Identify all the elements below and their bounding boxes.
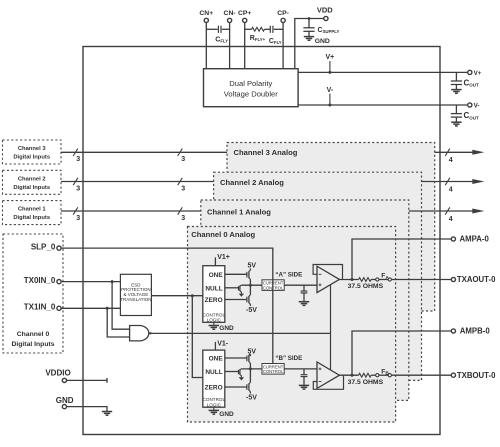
wire V+ rail: [298, 71, 467, 73]
wire CFLY2 to CP-: [274, 28, 283, 30]
node V- marker: [329, 94, 331, 105]
ground COUT (V+): [451, 90, 461, 94]
svg-text:V+: V+: [474, 70, 482, 77]
svg-text:TXAOUT-0: TXAOUT-0: [457, 275, 496, 284]
svg-text:VDDIO: VDDIO: [45, 369, 70, 378]
channel 3 digital inputs box: [3, 140, 62, 164]
terminal CN+: [204, 18, 208, 22]
wire CN+ to CFLY: [206, 28, 217, 30]
svg-text:CONTROL: CONTROL: [263, 369, 284, 374]
svg-text:-5V: -5V: [246, 395, 257, 402]
channel 0 digital inputs box: [3, 234, 63, 353]
op block A current control: [262, 280, 284, 291]
op block B current control: [262, 364, 284, 375]
terminal GND: [62, 405, 66, 409]
bus slash 3a ch1: [73, 207, 78, 214]
wire A res to FA: [371, 279, 376, 281]
wire FA link: [379, 279, 388, 281]
svg-text:SLP_0: SLP_0: [31, 243, 56, 252]
transistor QB1 (5V): [247, 354, 251, 363]
wire ESD branch to B logic: [192, 296, 203, 378]
wire B rail upper: [249, 363, 251, 369]
op block B control logic: [203, 350, 225, 407]
A noninverting input mark: [319, 284, 322, 286]
chip outline: [83, 47, 440, 435]
transistor QB3 (-5V): [247, 382, 251, 391]
wire A ONE: [225, 273, 247, 275]
wire AND out to enable: [150, 332, 330, 334]
junction A out: [351, 278, 354, 281]
svg-text:ONE: ONE: [209, 272, 224, 279]
wire TX0IN_0 to ESD: [61, 281, 120, 283]
wire COUT2 stub: [455, 105, 457, 114]
wire B NULL: [225, 371, 239, 373]
svg-text:37.5 OHMS: 37.5 OHMS: [348, 283, 384, 290]
channel 0 analog block: [188, 227, 396, 423]
wire CN- to doubler: [229, 23, 231, 69]
bus slash 3b ch3: [178, 149, 183, 156]
resistor A 37.5 ohms: [359, 278, 372, 282]
svg-text:TRANSLATION: TRANSLATION: [120, 297, 151, 302]
svg-text:ZERO: ZERO: [205, 297, 223, 304]
wire enable A-B amps: [330, 285, 332, 370]
svg-text:NULL: NULL: [205, 285, 222, 292]
wire channel 2 analog out bus: [422, 181, 473, 183]
wire B -5V stub: [249, 392, 251, 394]
svg-text:GND: GND: [219, 325, 234, 332]
svg-text:3: 3: [76, 215, 80, 222]
terminal TX1IN_0: [57, 306, 61, 310]
terminal V+: [468, 70, 472, 74]
svg-text:CP-: CP-: [277, 10, 289, 17]
terminal VDD: [324, 16, 328, 20]
junction B out: [351, 374, 354, 377]
wire FA to TXAOUT: [391, 279, 451, 281]
wire TX1IN branch to AND: [107, 308, 129, 337]
svg-text:3: 3: [76, 156, 80, 163]
terminal SLP_0: [57, 246, 61, 250]
bus slash 4 ch1: [445, 207, 450, 214]
ground B logic: [213, 407, 215, 410]
node V+ marker: [329, 61, 331, 72]
svg-text:3: 3: [181, 185, 185, 192]
svg-text:Digital Inputs: Digital Inputs: [11, 341, 54, 348]
svg-text:V-: V-: [327, 87, 334, 94]
channel 2 digital inputs box: [3, 170, 62, 194]
wire B feedback: [313, 375, 343, 389]
wire CSUPPLY stub: [308, 19, 310, 28]
terminal TX0IN_0: [57, 280, 61, 284]
svg-text:4: 4: [449, 157, 453, 164]
op block A control logic: [203, 266, 225, 323]
wire A rail upper: [249, 279, 251, 285]
wire CFLY to CN-: [222, 28, 230, 30]
wire CP+ to RFLY: [245, 28, 252, 30]
terminal AMPB-0: [451, 329, 455, 333]
wire B res to FB: [371, 374, 376, 376]
capacitor COUT (V+): [451, 81, 462, 85]
wire A ZERO: [225, 299, 247, 301]
svg-text:Voltage Doubler: Voltage Doubler: [224, 90, 279, 99]
wire B node line: [241, 368, 262, 370]
wire TX0IN branch to AND: [112, 282, 130, 330]
wire channel 1 digital bus: [61, 210, 201, 212]
capacitor CFLY (CN): [218, 26, 221, 33]
ground COUT (V-): [451, 122, 461, 126]
B noninverting input mark: [319, 368, 322, 370]
transistor QA3 (-5V): [247, 295, 251, 304]
channel 3 analog block: [227, 143, 435, 312]
svg-text:37.5 OHMS: 37.5 OHMS: [348, 379, 384, 386]
svg-text:“A” SIDE: “A” SIDE: [275, 271, 302, 278]
svg-text:Digital Inputs: Digital Inputs: [13, 215, 50, 221]
bus slash 3b ch1: [178, 207, 183, 214]
ground A cap: [299, 302, 309, 306]
svg-text:GND: GND: [219, 411, 234, 418]
wire channel 1 analog out bus: [409, 210, 473, 212]
arrow ch3 analog out: [472, 150, 484, 155]
svg-text:Channel 3: Channel 3: [18, 146, 46, 152]
junction TX1IN branch: [106, 307, 109, 310]
wire V1- stub: [214, 342, 216, 350]
wire VDD to doubler: [295, 19, 324, 69]
terminal TXBOUT-0: [451, 373, 455, 377]
wire B cap stub: [303, 369, 305, 375]
wire CN+ to doubler: [205, 23, 207, 69]
wire A cap stub: [303, 285, 305, 291]
bus slash 3a ch2: [73, 178, 78, 185]
svg-text:3: 3: [76, 185, 80, 192]
wire COUT1 stub: [455, 72, 457, 81]
resistor RFLY+: [252, 27, 265, 31]
B inverting input mark: [319, 381, 322, 383]
transistor QB2 (null current source): [239, 369, 242, 378]
wire A 5V stub: [249, 269, 251, 271]
svg-text:5V: 5V: [248, 348, 257, 355]
resistor B 37.5 ohms: [359, 373, 372, 377]
svg-text:LOGIC: LOGIC: [207, 402, 222, 407]
svg-text:Dual Polarity: Dual Polarity: [229, 79, 272, 88]
svg-text:Digital Inputs: Digital Inputs: [13, 185, 50, 191]
svg-text:“B” SIDE: “B” SIDE: [275, 355, 302, 362]
wire CSUPPLY to gnd: [308, 31, 310, 36]
svg-text:Channel 1 Analog: Channel 1 Analog: [207, 208, 271, 217]
svg-text:LOGIC: LOGIC: [207, 317, 222, 322]
svg-text:Channel 1: Channel 1: [18, 207, 46, 213]
terminal VDDIO: [62, 378, 66, 382]
channel 1 analog block: [201, 200, 409, 400]
terminal V-: [468, 103, 472, 107]
svg-text:Channel 2: Channel 2: [18, 176, 46, 182]
wire A NULL: [225, 287, 239, 289]
wire channel 3 digital bus: [61, 151, 227, 153]
terminal CP+: [243, 18, 247, 22]
svg-text:3: 3: [181, 215, 185, 222]
gate U2 AND: [130, 326, 149, 341]
wire B ZERO: [225, 386, 247, 388]
node A driver output: [249, 284, 252, 287]
wire TX1IN_0 to ESD: [61, 307, 120, 309]
svg-text:Channel 3 Analog: Channel 3 Analog: [234, 148, 298, 157]
wire CP- to doubler: [282, 23, 284, 69]
wire COUT2 to gnd: [455, 117, 457, 122]
bus slash 4 ch3: [445, 149, 450, 156]
wire V1+ stub: [214, 257, 216, 265]
junction TX0IN branch: [111, 280, 114, 283]
wire RFLY to CFLY2: [265, 28, 271, 30]
svg-text:VDD: VDD: [317, 5, 333, 14]
arrow ch2 analog out: [472, 179, 484, 184]
transistor QA1 (5V): [247, 270, 251, 279]
wire A cc to amp: [284, 284, 317, 286]
svg-text:4: 4: [449, 216, 453, 223]
svg-text:Channel 0 Analog: Channel 0 Analog: [191, 230, 255, 239]
ground B cap: [299, 385, 309, 389]
terminal CP-: [281, 18, 285, 22]
wire ESD out to A logic: [151, 295, 202, 297]
svg-text:Channel 2 Analog: Channel 2 Analog: [220, 178, 284, 187]
capacitor CFLY (CP): [270, 26, 273, 33]
node FA pin a: [376, 278, 379, 281]
svg-text:NULL: NULL: [205, 369, 222, 376]
wire SLP_0 to current controls: [61, 248, 272, 363]
wire A cap to gnd: [303, 293, 305, 302]
terminal CN-: [228, 18, 232, 22]
svg-text:AMPB-0: AMPB-0: [460, 327, 491, 336]
svg-text:TXBOUT-0: TXBOUT-0: [457, 371, 496, 380]
A inverting input mark: [319, 273, 322, 275]
terminal TXAOUT-0: [451, 277, 455, 281]
bus slash 3a ch3: [73, 149, 78, 156]
svg-text:CN+: CN+: [199, 10, 213, 17]
wire A feedback: [313, 265, 342, 280]
svg-text:V+: V+: [326, 54, 335, 61]
VDDIO end tick: [106, 378, 108, 383]
wire A node line: [241, 284, 262, 286]
wire COUT1 to gnd: [455, 85, 457, 90]
wire B cap to gnd: [303, 377, 305, 386]
transistor QA2 (null current source): [239, 285, 242, 294]
svg-text:Channel 0: Channel 0: [17, 331, 50, 338]
svg-text:Digital Inputs: Digital Inputs: [13, 155, 50, 161]
channel 2 analog block: [214, 172, 422, 380]
node AND output: [149, 332, 151, 334]
svg-text:V1+: V1+: [217, 254, 230, 261]
wire CP+ to doubler: [244, 23, 246, 69]
wire B 5V stub: [249, 354, 251, 356]
svg-text:V1-: V1-: [217, 340, 229, 347]
wire VDDIO: [67, 379, 107, 381]
channel 1 digital inputs box: [3, 201, 62, 225]
wire GND: [67, 407, 107, 412]
wire V- rail: [298, 104, 467, 106]
svg-text:ONE: ONE: [209, 356, 224, 363]
svg-text:4: 4: [449, 186, 453, 193]
wire B rail lower: [249, 369, 251, 383]
bus slash 3b ch2: [178, 178, 183, 185]
svg-text:GND: GND: [315, 38, 330, 45]
wire B cc to amp: [284, 368, 317, 370]
capacitor COUT (V-): [451, 114, 462, 118]
ground CSUPPLY: [304, 37, 314, 41]
svg-text:TX0IN_0: TX0IN_0: [24, 276, 56, 285]
node B driver output: [249, 367, 252, 370]
op-amp B: [317, 362, 339, 388]
wire FB to TXBOUT: [391, 374, 451, 376]
ground GND terminal: [102, 412, 112, 416]
svg-text:5V: 5V: [248, 262, 257, 269]
svg-text:3: 3: [181, 156, 185, 163]
svg-text:AMPA-0: AMPA-0: [460, 234, 490, 243]
svg-text:CN-: CN-: [224, 10, 236, 17]
node FB pin b: [388, 374, 391, 377]
capacitor A slew: [301, 291, 308, 293]
svg-text:GND: GND: [56, 396, 74, 405]
wire channel 3 analog out bus: [435, 151, 473, 153]
capacitor CSUPPLY: [303, 28, 314, 32]
node FA pin b: [388, 278, 391, 281]
wire A out to AMPA: [352, 239, 451, 280]
wire channel 2 digital bus: [61, 181, 214, 183]
wire B ONE: [225, 357, 247, 359]
svg-text:ZERO: ZERO: [205, 385, 223, 392]
svg-text:CP+: CP+: [238, 10, 251, 17]
wire A -5V stub: [249, 304, 251, 306]
wire A amp out: [339, 279, 358, 281]
svg-text:-5V: -5V: [246, 307, 257, 314]
junction ESD branch: [191, 294, 194, 297]
wire A rail lower: [249, 285, 251, 295]
svg-text:V-: V-: [474, 102, 480, 109]
ground A logic: [213, 322, 215, 325]
op block ESD protection: [120, 274, 151, 315]
node FB pin a: [376, 374, 379, 377]
wire FB link: [379, 374, 388, 376]
arrow ch1 analog out: [472, 209, 484, 214]
wire B out to AMPB: [352, 331, 451, 375]
junction VDD-CSUPPLY: [308, 17, 311, 20]
op block U1 Dual Polarity Voltage Doubler: [204, 69, 299, 107]
svg-text:TX1IN_0: TX1IN_0: [24, 303, 56, 312]
bus slash 4 ch2: [445, 178, 450, 185]
wire B amp out: [339, 374, 358, 376]
op-amp A: [317, 266, 339, 292]
capacitor B slew: [301, 375, 308, 377]
terminal AMPA-0: [451, 237, 455, 241]
